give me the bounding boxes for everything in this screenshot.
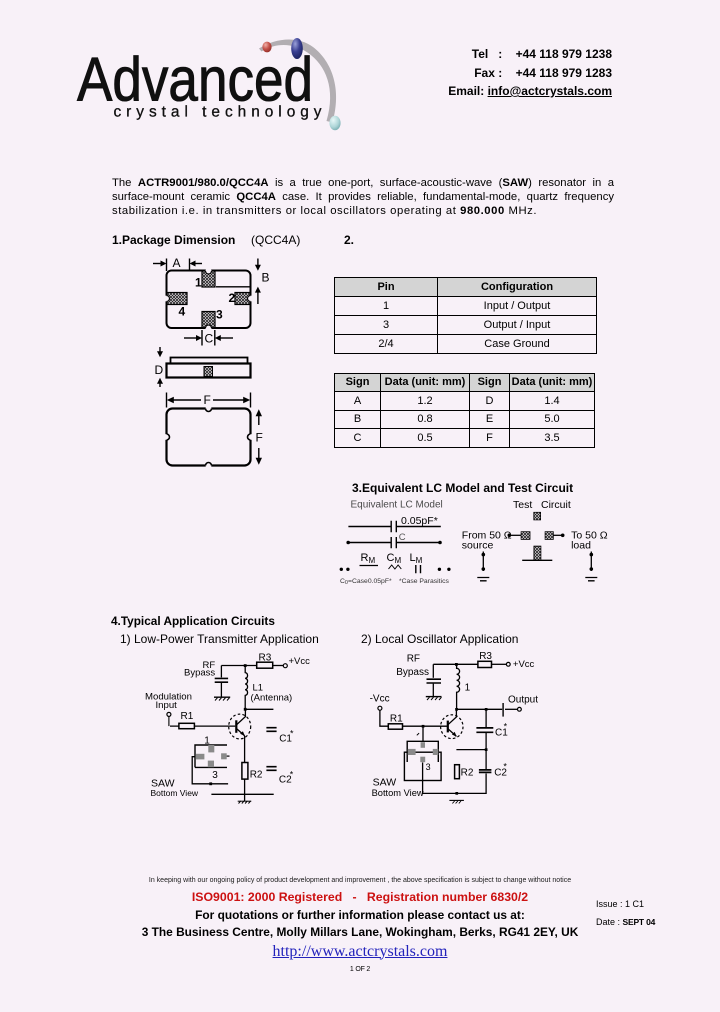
stray tick <box>417 733 419 735</box>
SAW ground wire dot <box>209 782 212 785</box>
dim C right arrow <box>217 337 233 339</box>
bottom view body <box>167 409 251 466</box>
wire R3 to Vcc c2 <box>492 663 507 665</box>
capacitor C0 plates <box>391 521 396 533</box>
wire DUT to load <box>554 534 563 536</box>
svg-text:R2: R2 <box>461 768 474 779</box>
resistor R3 <box>257 662 273 668</box>
svg-text:D: D <box>155 363 164 377</box>
wire R3 to Vcc <box>273 665 284 667</box>
footer ISO line <box>0 890 720 904</box>
svg-text:source: source <box>462 540 494 552</box>
svg-text:1: 1 <box>204 736 210 747</box>
svg-text:-Vcc: -Vcc <box>370 694 390 705</box>
collector node dot <box>244 708 247 711</box>
logo block <box>55 30 355 142</box>
bottom rail right wire <box>397 542 441 544</box>
bypass cap wire bottom <box>220 683 222 697</box>
pad 4 (hatched) <box>167 293 188 305</box>
svg-text:Equivalent LC Model: Equivalent LC Model <box>351 500 443 511</box>
resistor R2 c1 <box>242 763 248 780</box>
ground c2 <box>449 799 464 801</box>
c1 junction dot <box>244 664 247 667</box>
base junction dot <box>422 725 425 728</box>
svg-text:1: 1 <box>465 683 471 694</box>
emitter wire <box>244 736 246 795</box>
-Vcc wire <box>380 710 388 726</box>
emitter rail dot <box>485 748 488 751</box>
inductor L1 <box>245 666 247 710</box>
svg-text:C: C <box>399 532 406 543</box>
capacitor C2 plates c1 <box>266 767 276 771</box>
CM zigzag <box>389 565 402 569</box>
svg-text:*Case Parasitics: *Case Parasitics <box>399 578 449 585</box>
DUT bottom line <box>522 559 552 561</box>
output cap wire <box>505 708 517 710</box>
Vcc terminal <box>283 664 287 668</box>
C1-C2 wire c2 <box>485 733 487 769</box>
dim C left arrow <box>184 337 200 339</box>
collector rail c2 <box>457 708 503 710</box>
svg-text:Bottom View: Bottom View <box>372 788 424 798</box>
dim F vert bottom arrow <box>258 448 260 462</box>
base to SAW wire <box>422 726 424 741</box>
SAW pad right c2 <box>433 749 439 755</box>
resistor R2 c2 <box>455 765 460 779</box>
svg-text:RM: RM <box>361 552 376 565</box>
pad 2 (hatched) <box>235 293 251 305</box>
capacitor C1 plates <box>266 728 276 732</box>
Vcc terminal c2 <box>506 662 510 666</box>
svg-text:R3: R3 <box>479 651 492 662</box>
base wire <box>170 725 235 727</box>
bottom view notch left <box>164 434 170 440</box>
svg-text:3: 3 <box>216 308 223 322</box>
Q2 base bar <box>447 721 449 733</box>
blue ball <box>291 38 303 59</box>
heading 4 <box>111 614 275 628</box>
rail junction dot c2 <box>455 792 458 795</box>
bypass cap wire top c2 <box>432 664 434 678</box>
bypass capacitor plates c2 <box>427 679 442 683</box>
node dot right <box>438 541 442 545</box>
SAW pad2 stub <box>227 755 230 757</box>
dim F horiz line right w/ arrow <box>213 399 248 401</box>
SAW pad2 c1 <box>221 753 227 759</box>
DUT top pad (hatched) <box>534 512 541 520</box>
footer small notice <box>0 877 720 884</box>
bottom view notch right <box>248 434 254 440</box>
C branch junction dot <box>485 708 488 711</box>
capacitor C1 plates <box>391 537 396 548</box>
output cap left plate <box>502 703 504 717</box>
load ground <box>585 578 597 581</box>
svg-text:Output: Output <box>508 694 538 705</box>
Q1 collector <box>236 709 245 725</box>
top view body <box>167 271 251 329</box>
contact block <box>440 45 612 101</box>
SAW pad1 c1 <box>208 745 214 752</box>
transistor Q2 circle (dashed) <box>441 715 463 739</box>
load terminal wire <box>590 552 592 572</box>
dim C ticks <box>202 330 215 346</box>
capacitor C1 plates c2 <box>476 728 493 732</box>
SAW pad bottom c2 <box>420 757 425 763</box>
svg-text:*: * <box>290 769 294 779</box>
bottom view notch bottom <box>206 463 212 469</box>
ground c1 <box>239 801 251 804</box>
pad 3 notch <box>206 325 212 331</box>
svg-text:C: C <box>205 332 214 346</box>
dim A ticks <box>167 259 190 272</box>
Q1 base bar <box>235 720 237 733</box>
Q2 collector <box>448 709 457 725</box>
pad 3 (hatched) <box>202 312 215 329</box>
pad 4 notch <box>164 296 170 302</box>
svg-text:F: F <box>204 393 211 407</box>
svg-text:2: 2 <box>229 291 236 305</box>
output terminal <box>518 707 522 711</box>
side view pad (hatched) <box>204 367 213 377</box>
SAW pad top c2 <box>421 742 425 748</box>
svg-text:A: A <box>173 256 181 270</box>
side view body <box>167 364 251 378</box>
pad 1 (hatched) <box>202 271 215 287</box>
swoosh arc <box>259 39 336 122</box>
SAW pad3 c1 <box>208 761 214 768</box>
-Vcc terminal <box>378 706 382 710</box>
svg-text:Bypass: Bypass <box>396 667 429 678</box>
dim D top arrow <box>159 347 161 355</box>
svg-text:LM: LM <box>410 552 423 565</box>
transistor Q1 circle (dashed) <box>229 714 251 739</box>
top rail left wire <box>348 526 390 528</box>
resistor R1 c2 <box>388 724 402 729</box>
ground stub c1 <box>244 794 246 801</box>
capacitor C2 plates c2 <box>479 770 492 773</box>
heading 3 <box>352 481 573 495</box>
svg-text:+Vcc: +Vcc <box>289 656 311 667</box>
svg-text:1: 1 <box>195 276 202 290</box>
svg-text:F: F <box>256 431 263 445</box>
RM underline (resistor) <box>360 565 379 567</box>
Q2 emitter <box>448 729 457 737</box>
svg-text:R1: R1 <box>390 714 403 725</box>
pad 1 notch <box>206 268 212 274</box>
svg-text:*: * <box>503 761 507 771</box>
dim A left arrow <box>153 263 164 265</box>
SAW package outline c2 outer <box>404 752 441 780</box>
top rail right wire <box>397 526 441 528</box>
base wire c2 <box>403 725 448 727</box>
sign data table <box>334 373 595 448</box>
SAW ground wire <box>192 757 228 784</box>
svg-text:*: * <box>290 729 294 739</box>
footer contact line <box>0 908 720 922</box>
DUT left pad (hatched) <box>521 532 530 540</box>
c2 top junction dot <box>455 663 458 666</box>
dim D bottom arrow <box>159 381 161 388</box>
bottom view notch top <box>206 406 212 412</box>
svg-text:R3: R3 <box>259 652 272 663</box>
SAW package outline c1 <box>195 745 227 767</box>
bypass ground c2 <box>426 696 442 698</box>
svg-text:RF: RF <box>407 653 420 664</box>
svg-text:Test: Test <box>513 499 532 511</box>
wire source to DUT <box>509 534 521 536</box>
resistor R3 c2 <box>478 661 492 667</box>
dim B top arrow <box>257 259 259 269</box>
svg-text:Bottom View: Bottom View <box>151 788 199 798</box>
Q1 emitter <box>236 728 244 735</box>
svg-text:CM: CM <box>387 552 402 565</box>
node dot left <box>346 541 350 545</box>
SAW package outline c2 inner <box>407 741 438 762</box>
intro paragraph <box>112 176 614 218</box>
collector node dot c2 <box>455 708 458 711</box>
c1 top rail wire <box>221 665 256 667</box>
svg-text:0.05pF*: 0.05pF* <box>401 515 438 527</box>
series branch dots right <box>438 568 441 571</box>
red ball <box>262 42 271 53</box>
bottom rail left wire <box>348 542 391 544</box>
C1 branch wire c2 <box>485 709 487 727</box>
series branch dots left <box>340 568 343 571</box>
inductor L1 c2 <box>457 664 460 709</box>
dim F horiz ticks <box>167 393 251 408</box>
bypass capacitor C plates <box>215 678 228 682</box>
svg-text:C0=Case0.05pF*: C0=Case0.05pF* <box>340 578 392 586</box>
emitter rail c2 <box>456 749 486 751</box>
Q1 emitter arrow <box>240 731 245 736</box>
bypass cap wire bottom c2 <box>432 684 434 697</box>
bottom rail c1 <box>211 793 273 795</box>
source terminal wire <box>482 552 484 572</box>
collector rail wire <box>245 708 273 710</box>
svg-text:3: 3 <box>426 762 431 772</box>
dim F horiz line left w/ arrow <box>170 399 202 401</box>
SAW pad left c2 <box>408 749 416 755</box>
svg-text:Bypass: Bypass <box>184 667 215 678</box>
source ground <box>477 578 489 581</box>
footer page no <box>0 966 720 973</box>
input stub wire <box>168 717 170 727</box>
svg-text:4: 4 <box>179 305 186 319</box>
Q2 emitter arrow <box>452 732 457 737</box>
input terminal <box>167 712 171 716</box>
SAW pad4 c1 <box>196 754 205 760</box>
svg-text:+Vcc: +Vcc <box>513 659 535 670</box>
svg-text:SAW: SAW <box>373 777 397 789</box>
cyan ball <box>329 116 340 130</box>
dim F vert top arrow <box>258 412 260 425</box>
resistor R1 <box>179 723 195 728</box>
svg-text:R1: R1 <box>181 711 194 722</box>
footer address <box>0 925 720 939</box>
dim A right arrow <box>192 263 202 265</box>
C2 to rail wire c2 <box>423 763 487 794</box>
footer issue <box>596 899 644 909</box>
heading 1.Package Dimension <box>112 233 235 247</box>
svg-text:R2: R2 <box>250 769 263 780</box>
pin configuration table <box>334 277 597 355</box>
LM plates (capacitor) <box>416 565 421 573</box>
DUT bottom pad (hatched) <box>534 546 541 560</box>
svg-text:3: 3 <box>212 770 218 781</box>
dim B bottom arrow <box>257 289 259 304</box>
pad 2 notch <box>248 296 254 302</box>
svg-text:Input: Input <box>156 700 178 711</box>
footer date <box>596 917 655 927</box>
bypass cap wire top <box>220 666 222 678</box>
svg-text:B: B <box>262 271 270 285</box>
c2 top rail wire <box>433 663 478 665</box>
svg-text:*: * <box>504 722 508 732</box>
dim B ref line <box>216 286 250 288</box>
DUT right pad (hatched) <box>545 532 553 540</box>
svg-text:load: load <box>571 540 591 552</box>
footer url <box>0 943 720 961</box>
svg-text:Circuit: Circuit <box>541 499 571 511</box>
side view lid <box>171 358 248 364</box>
bypass ground <box>214 696 230 698</box>
svg-text:(Antenna): (Antenna) <box>251 692 293 703</box>
